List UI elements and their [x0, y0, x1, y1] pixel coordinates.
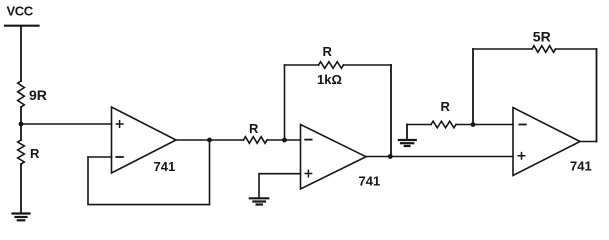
wire: U2 feedback top left segment [285, 64, 319, 66]
resistor 9R [18, 81, 25, 107]
wire: U1 inverting input stub [88, 156, 112, 158]
wire: VCC rail top [20, 27, 22, 81]
svg-text:741: 741 [570, 159, 592, 174]
ground (left rail) [13, 214, 30, 221]
svg-text:9R: 9R [29, 87, 47, 103]
op-amp U1 (741) [112, 107, 177, 173]
node A junction dot [19, 122, 24, 127]
VCC terminal bar [5, 25, 39, 27]
resistor R (series input to U2) [244, 137, 268, 144]
wire: resistor to U3 inverting input [456, 124, 513, 126]
wire: U3 feedback right vertical [596, 49, 598, 142]
ground (U3 input resistor) [399, 140, 416, 146]
junction dot at U2 output/feedback [388, 154, 393, 159]
wire: U2 output to U3 noninverting input [366, 156, 513, 158]
svg-text:R: R [30, 146, 40, 161]
op-amp U3 (741) [513, 108, 580, 176]
wire: U2 feedback left vertical [284, 65, 286, 140]
svg-text:R: R [323, 44, 333, 59]
svg-text:741: 741 [359, 174, 381, 189]
wire: U2 feedback top right segment [344, 64, 392, 66]
junction dot at U2 inverting node [282, 138, 287, 143]
wire: U3 feedback left vertical [472, 49, 474, 125]
wire: U3 feedback top right segment [556, 48, 597, 50]
wire: U2 noninverting input to ground [259, 174, 301, 198]
ground (U2 noninverting input) [250, 198, 268, 204]
resistor 5R (U3 feedback) [532, 46, 556, 53]
U1 noninverting input symbol + [116, 121, 123, 128]
wire: ground stub for U3 input resistor [406, 125, 408, 140]
wire: U1 output [176, 139, 244, 141]
U2 noninverting input symbol + [305, 170, 311, 176]
svg-text:1kΩ: 1kΩ [317, 72, 342, 87]
svg-text:741: 741 [154, 159, 176, 174]
op-amp U2 (741) [301, 125, 367, 190]
resistor R (lower left) [18, 140, 25, 164]
wire: resistor to U2 inverting input [267, 139, 301, 141]
svg-text:VCC: VCC [7, 4, 34, 19]
junction dot at U3 inverting node [471, 122, 476, 127]
resistor R (U3 gain-set) [431, 121, 456, 128]
wire: U3 output [580, 141, 597, 143]
junction dot at U1 output/feedback [207, 138, 212, 143]
svg-text:R: R [441, 99, 451, 114]
resistor R 1kohm (U2 feedback) [319, 62, 344, 69]
wire: U2 feedback right vertical [390, 65, 392, 157]
wire: U3 feedback top left segment [473, 48, 532, 50]
U2 inverting input symbol - [305, 139, 311, 141]
U3 noninverting input symbol + [518, 153, 524, 159]
U1 inverting input symbol - [116, 156, 123, 158]
svg-text:5R: 5R [533, 28, 551, 44]
wire: rail between 9R and R [20, 107, 22, 140]
wire: U1 feedback loop (unity gain) [88, 140, 210, 205]
svg-text:R: R [249, 121, 259, 136]
U3 inverting input symbol - [519, 124, 525, 126]
wire: node A to U1 noninverting input [21, 123, 112, 125]
wire: rail bottom to ground [20, 164, 22, 213]
wire: ground to resistor R [407, 124, 431, 126]
